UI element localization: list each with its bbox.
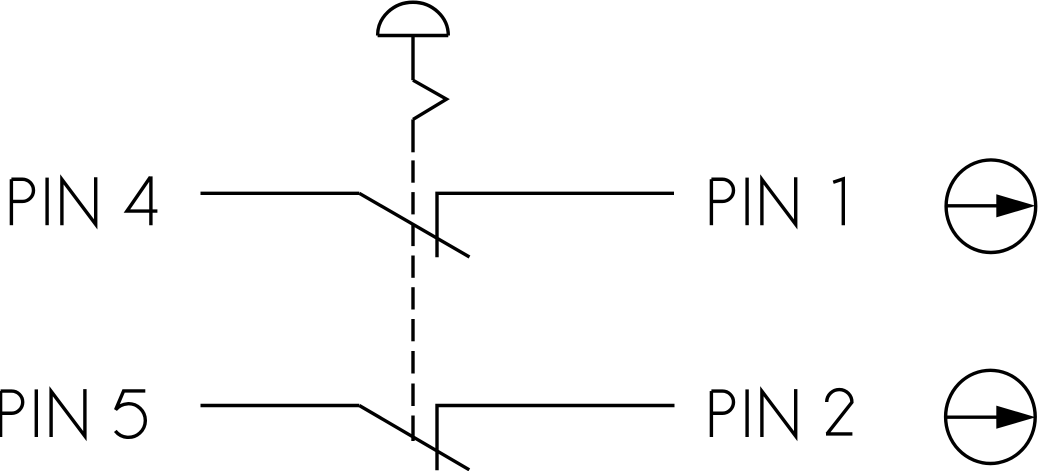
wire PIN 4 lead bbox=[201, 192, 360, 195]
label PIN 4 bbox=[11, 176, 157, 225]
label PIN 1 bbox=[711, 177, 843, 225]
connector symbol circle (PIN 2) bbox=[946, 370, 1036, 463]
switch contact blade (PIN 5 to PIN 2, crossing, clipped at bottom) bbox=[359, 406, 469, 470]
connector symbol circle (PIN 1) bbox=[946, 160, 1036, 253]
actuator spring zigzag bbox=[413, 80, 447, 119]
wire PIN 5 lead bbox=[201, 404, 360, 407]
switch contact blade (PIN 4 to PIN 1, normally open crossing) bbox=[359, 193, 469, 257]
label PIN 5 bbox=[1, 389, 146, 437]
contact terminal corner (PIN 2 side, clipped at bottom) bbox=[437, 406, 675, 471]
connector arrow (PIN 2) bbox=[945, 406, 1036, 429]
connector arrow (PIN 1) bbox=[945, 194, 1036, 217]
label PIN 2 bbox=[711, 389, 852, 437]
actuator stem (lower solid) bbox=[411, 119, 414, 152]
pushbutton actuator cap (dome) bbox=[378, 2, 449, 35]
mechanical linkage dashed line bbox=[411, 160, 414, 441]
actuator stem (upper) bbox=[411, 36, 414, 81]
contact terminal corner (PIN 1 side) bbox=[437, 193, 674, 257]
